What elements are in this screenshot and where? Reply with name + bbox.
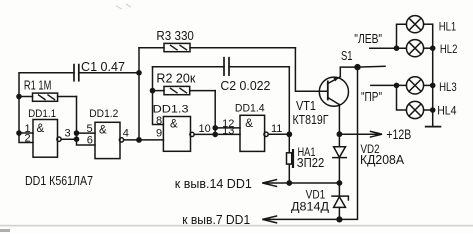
gate DD1.1: [33, 120, 77, 158]
svg-text:S1: S1: [341, 48, 353, 63]
node dot HA1 bottom: [286, 180, 292, 186]
diode VD2: [333, 134, 347, 183]
wire +12V branch with arrow: [339, 131, 382, 137]
resistor R1: [33, 93, 77, 101]
lamp HL2: [406, 40, 432, 57]
svg-text:VT1: VT1: [296, 99, 316, 113]
wire vertical R3-left / DD1.2 out node: [138, 48, 140, 140]
wire C2-left / R2-left / pin8 vertical: [153, 67, 165, 125]
svg-text:+12В: +12В: [386, 127, 411, 142]
node dot ПР: [394, 83, 400, 89]
node dot HL3 right: [430, 83, 436, 89]
node dot pin13: [212, 132, 218, 138]
wire left node: DD1.1 inputs / R1 left / C1 left: [19, 73, 74, 143]
svg-text:&: &: [37, 123, 45, 135]
svg-text:8: 8: [156, 115, 162, 127]
svg-text:3: 3: [65, 128, 71, 140]
gate DD1.2: [95, 122, 163, 158]
svg-text:DD1.1: DD1.1: [28, 108, 56, 120]
svg-text:R2 20к: R2 20к: [156, 71, 195, 86]
node dot pin5: [74, 130, 80, 136]
wire к выв.7 DD1 line with arrow, up right side to S1: [263, 67, 358, 223]
wire R3 right down to VT1 base: [295, 48, 327, 91]
svg-text:13: 13: [222, 125, 234, 137]
svg-text:С2 0.022: С2 0.022: [220, 78, 270, 93]
svg-text:R1 1М: R1 1М: [24, 79, 52, 93]
svg-text:к выв.14 DD1: к выв.14 DD1: [175, 176, 252, 191]
wire ЛЕВ contact line: [370, 47, 397, 49]
svg-text:DD1 К561ЛА7: DD1 К561ЛА7: [25, 173, 93, 188]
node dot vyv14 right: [337, 180, 343, 186]
svg-text:DD1.4: DD1.4: [235, 103, 265, 115]
resistor R3: [139, 43, 295, 51]
svg-text:Д814Д: Д814Д: [291, 200, 329, 214]
resistor R2: [164, 86, 215, 94]
svg-text:С1 0.47: С1 0.47: [81, 60, 125, 74]
node dot ЛЕВ: [394, 45, 400, 51]
scan artifact bottom streak: [0, 225, 473, 227]
wire C2-right vertical down to DD1.4 out and HA1: [288, 67, 290, 153]
transistor VT1: [319, 67, 357, 106]
svg-text:5: 5: [87, 123, 93, 135]
svg-text:HL2: HL2: [440, 42, 458, 56]
wire lamp feeds left: [397, 24, 407, 110]
svg-text:9: 9: [156, 128, 162, 140]
svg-text:&: &: [245, 118, 253, 130]
svg-text:HL3: HL3: [439, 80, 457, 94]
wire к выв.14 DD1 line with arrow: [263, 180, 340, 187]
svg-text:ЗП22: ЗП22: [297, 156, 325, 170]
node dot DD1.4 out: [286, 131, 292, 137]
wire ПР contact line: [371, 84, 397, 86]
node dot C1/R3: [136, 70, 142, 76]
capacitor C2: [153, 58, 290, 75]
svg-text:"ЛЕВ": "ЛЕВ": [354, 32, 382, 46]
capacitor C1: [74, 65, 79, 81]
node dot pin9 line: [136, 137, 142, 143]
svg-text:"ПР": "ПР": [361, 90, 382, 104]
node dot VD1 bottom: [336, 216, 342, 222]
node dot pin3 out: [74, 136, 80, 142]
svg-text:КД208А: КД208А: [360, 153, 405, 167]
switch S1: [354, 64, 385, 70]
svg-text:6: 6: [87, 134, 93, 146]
zener VD1: [332, 183, 348, 219]
node dot R1 left: [16, 94, 22, 100]
lamp HL1: [406, 16, 432, 33]
svg-text:HL1: HL1: [439, 19, 457, 33]
node dot pin12: [212, 125, 218, 131]
node dot pin1: [16, 130, 22, 136]
svg-text:4: 4: [123, 127, 129, 139]
svg-text:11: 11: [271, 123, 282, 135]
lamp HL3: [406, 77, 432, 94]
node dot HL4 right: [430, 107, 436, 113]
node dot R2 left: [150, 88, 156, 94]
wire right rail: [432, 24, 434, 125]
svg-text:&: &: [170, 118, 178, 130]
node dot HL2 right: [430, 45, 436, 51]
ground chassis: [426, 126, 441, 128]
svg-text:КТ819Г: КТ819Г: [293, 113, 329, 127]
wire R1-right / DD1.1 out / DD1.2 inputs: [77, 97, 96, 146]
wire VT1 collector down to +12 node: [338, 105, 340, 135]
svg-text:HL4: HL4: [437, 104, 457, 118]
svg-text:10: 10: [199, 123, 211, 135]
gate DD1.3: [163, 117, 240, 152]
svg-text:DD1.2: DD1.2: [89, 108, 118, 120]
svg-text:R3 330: R3 330: [156, 28, 194, 43]
wire R2-right down to DD1.4 inputs: [215, 91, 240, 135]
buzzer HA1: [287, 149, 295, 183]
node dot +12 node: [337, 131, 343, 137]
wire C1 right to R3-left vertical: [79, 72, 139, 74]
svg-text:&: &: [99, 125, 107, 137]
lamp HL4: [406, 101, 432, 118]
gate DD1.4: [240, 115, 289, 151]
svg-text:2: 2: [25, 133, 31, 145]
